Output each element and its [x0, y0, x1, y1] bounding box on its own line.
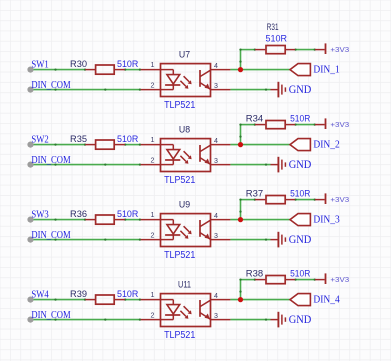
svg-text:DIN_COM: DIN_COM [31, 230, 70, 241]
svg-text:2: 2 [151, 157, 155, 165]
svg-text:3: 3 [214, 232, 218, 240]
svg-text:2: 2 [151, 312, 155, 320]
svg-text:510R: 510R [266, 34, 288, 45]
svg-text:DIN_2: DIN_2 [313, 140, 339, 151]
svg-text:3: 3 [214, 82, 218, 90]
svg-text:SW3: SW3 [31, 209, 48, 220]
svg-text:R35: R35 [70, 134, 87, 145]
svg-text:R30: R30 [70, 59, 87, 70]
svg-text:TLP521: TLP521 [164, 250, 195, 261]
svg-text:+3V3: +3V3 [330, 275, 349, 284]
svg-text:510R: 510R [117, 289, 138, 300]
svg-text:510R: 510R [117, 134, 138, 145]
svg-text:U11: U11 [178, 280, 191, 291]
svg-text:SW1: SW1 [31, 59, 48, 70]
svg-text:2: 2 [151, 82, 155, 90]
svg-text:GND: GND [289, 312, 312, 326]
svg-text:DIN_4: DIN_4 [313, 295, 340, 306]
svg-text:510R: 510R [290, 114, 310, 125]
svg-text:TLP521: TLP521 [164, 330, 195, 341]
svg-text:R36: R36 [70, 209, 87, 220]
svg-text:R38: R38 [246, 269, 263, 280]
svg-text:1: 1 [151, 61, 155, 69]
svg-text:TLP521: TLP521 [164, 100, 195, 111]
svg-text:1: 1 [151, 291, 155, 299]
svg-text:+3V3: +3V3 [330, 195, 349, 204]
svg-text:SW4: SW4 [31, 289, 48, 300]
svg-text:4: 4 [214, 137, 218, 145]
svg-text:4: 4 [214, 212, 218, 220]
svg-text:+3V3: +3V3 [330, 120, 349, 129]
svg-text:DIN_COM: DIN_COM [31, 155, 70, 166]
svg-text:DIN_1: DIN_1 [313, 65, 339, 76]
svg-text:2: 2 [151, 232, 155, 240]
svg-text:1: 1 [151, 136, 155, 144]
svg-text:+3V3: +3V3 [330, 45, 349, 54]
svg-text:U8: U8 [179, 125, 190, 136]
svg-text:DIN_COM: DIN_COM [31, 80, 70, 91]
svg-text:510R: 510R [117, 209, 138, 220]
svg-text:GND: GND [289, 157, 312, 171]
svg-text:4: 4 [214, 292, 218, 300]
svg-text:DIN_COM: DIN_COM [31, 310, 70, 321]
svg-text:R31: R31 [267, 22, 279, 33]
svg-text:510R: 510R [290, 269, 310, 280]
svg-text:R39: R39 [70, 289, 87, 300]
svg-text:GND: GND [289, 82, 312, 96]
svg-text:U9: U9 [179, 200, 190, 211]
svg-text:SW2: SW2 [31, 134, 48, 145]
svg-text:DIN_3: DIN_3 [313, 215, 339, 226]
svg-text:3: 3 [214, 312, 218, 320]
svg-text:GND: GND [289, 232, 312, 246]
svg-text:1: 1 [151, 211, 155, 219]
svg-text:3: 3 [214, 157, 218, 165]
svg-text:TLP521: TLP521 [164, 175, 195, 186]
svg-text:R37: R37 [246, 189, 263, 200]
svg-text:510R: 510R [290, 189, 310, 200]
svg-text:U7: U7 [179, 50, 190, 61]
svg-text:510R: 510R [117, 59, 138, 70]
svg-text:4: 4 [214, 62, 218, 70]
svg-text:R34: R34 [246, 114, 264, 125]
